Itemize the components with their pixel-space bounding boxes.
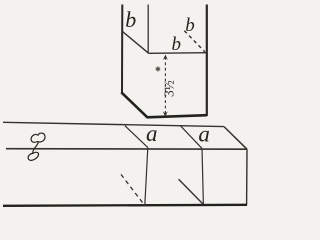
paper background (0, 0, 250, 216)
dimension arrow up (163, 55, 168, 60)
svg-text:3½: 3½ (161, 80, 176, 97)
post bottom edge (147, 115, 207, 117)
rail top back edge (3, 122, 224, 126)
svg-text:a: a (146, 121, 158, 146)
dimension line dashed (164, 57, 166, 115)
rail right end edge (246, 149, 248, 205)
post bevel bottom-left (121, 92, 147, 117)
hidden gain line dashed (184, 31, 205, 52)
rail right end top diagonal (224, 127, 247, 150)
rail top front edge (6, 148, 247, 151)
svg-text:b: b (125, 7, 136, 32)
post right edge (206, 5, 208, 117)
post left edge (121, 5, 123, 93)
gain mark a1 line on front face (145, 148, 148, 206)
face mark squiggle (31, 133, 45, 153)
gain mark a2 diagonal on top face (181, 126, 203, 149)
dashed knife line on rail front (121, 174, 144, 204)
post front-left edge (147, 5, 149, 54)
gain line on front face (148, 52, 207, 55)
gain line on left face (123, 32, 149, 54)
edge mark loop (28, 152, 38, 160)
gain mark a2 line on front face (202, 149, 203, 205)
solid knife line on rail front (179, 179, 204, 204)
rail bottom edge (3, 205, 247, 206)
svg-text:a: a (198, 121, 210, 146)
svg-text:✱: ✱ (155, 66, 161, 74)
svg-text:b: b (185, 15, 195, 36)
svg-text:b: b (172, 34, 182, 55)
dimension arrow down (163, 111, 168, 116)
gain mark a1 diagonal on top face (125, 126, 148, 148)
